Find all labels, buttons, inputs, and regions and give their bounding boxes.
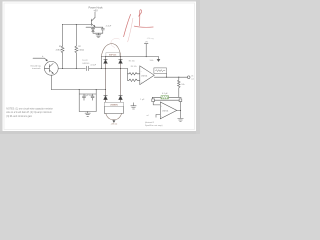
resistor R1 4.8k [56, 25, 64, 69]
svg-text:4.7µF: 4.7µF [106, 26, 112, 28]
red annotation stroke 3 tick [134, 26, 153, 27]
svg-text:0.1 µF: 0.1 µF [162, 93, 168, 95]
label IC part no under R2 [82, 60, 90, 65]
page edge shading [0, 131, 200, 134]
ground under C1/D1 [96, 33, 101, 37]
wire U1 output [154, 76, 187, 78]
svg-text:+5V reg: +5V reg [147, 38, 154, 40]
node output junctions [166, 77, 179, 78]
resistor R5 horizontal [128, 73, 140, 75]
wire feedback drop [166, 73, 168, 77]
dome arc over box [101, 44, 121, 57]
junction dots [62, 24, 147, 90]
ground G3 [85, 112, 90, 117]
svg-text:KBP206: KBP206 [109, 55, 117, 57]
page background [0, 0, 200, 134]
capacitor C4 in rail A [86, 64, 97, 70]
ground G2 [178, 118, 184, 121]
wire into U2 + input [153, 102, 160, 105]
svg-text:4.7µF: 4.7µF [90, 64, 96, 66]
svg-text:100k: 100k [150, 60, 154, 62]
svg-text:10µF 10µF: 10µF 10µF [84, 95, 94, 97]
wire cap line [152, 96, 181, 98]
feedback resistor box [150, 60, 167, 74]
label mic 2 lines [30, 64, 41, 70]
bowl arc under box [106, 113, 122, 119]
caps box verticals [79, 90, 96, 112]
op-amp U2 [160, 102, 177, 119]
svg-text:(3) RL and minimum gain: (3) RL and minimum gain [6, 116, 32, 118]
notes text block [6, 108, 53, 118]
wire rail A [58, 68, 127, 70]
svg-text:+6V: +6V [93, 9, 98, 12]
resistor R2 2.4k [75, 25, 84, 69]
svg-text:R5 10k: R5 10k [129, 61, 135, 63]
svg-text:TL072: TL072 [82, 60, 89, 62]
label R5 [129, 61, 137, 68]
red annotation stroke 2 loop [139, 10, 142, 26]
resistor R6 horizontal [128, 79, 140, 81]
transistor Q1 [91, 18, 95, 27]
wire Q1 emitter rail [86, 26, 103, 28]
wire drop from cap line to U2 input [151, 97, 153, 99]
+9V stub [144, 42, 148, 57]
transistor Q3 (mic element) [44, 61, 58, 75]
svg-text:10k: 10k [181, 84, 184, 86]
red annotation stroke 1 [124, 14, 131, 36]
wire Q1 base rail [63, 24, 91, 26]
input arrow to mic [33, 55, 47, 61]
wire box sides down [104, 107, 123, 114]
svg-text:LM741: LM741 [162, 111, 169, 113]
output terminal [187, 75, 194, 80]
wire into U2 - input [156, 115, 160, 118]
wire rail B [101, 56, 158, 58]
svg-text:4.8kΩ: 4.8kΩ [56, 50, 62, 52]
wire mic emitter down [50, 75, 52, 89]
capacitor C2 10uF [83, 94, 86, 100]
wire dome base drop [100, 57, 102, 69]
label 1uF [140, 99, 145, 101]
red annotation faint tail [128, 18, 133, 42]
capacitor C1 4.7uF [98, 26, 112, 34]
wire caps box top [79, 93, 96, 95]
ground G4 mid [131, 103, 136, 109]
diode D3 [119, 57, 123, 96]
node square left [152, 99, 155, 102]
svg-text:SparkFun mic amp): SparkFun mic amp) [145, 125, 163, 127]
wire U2 feedback top [155, 99, 180, 101]
wire drop to input resistors [127, 69, 129, 81]
faint oval [111, 38, 120, 47]
label Power Hook [88, 6, 103, 13]
smudge note [147, 38, 154, 40]
svg-text:R6 10k: R6 10k [131, 66, 137, 68]
zener D1 [92, 27, 99, 33]
op-amp U1 [140, 66, 155, 85]
diode D4 [104, 95, 108, 102]
diode D5 [119, 95, 123, 102]
note bottom right [145, 122, 163, 127]
wire rail C [51, 89, 105, 91]
capacitor C3 10uF [91, 94, 94, 100]
supply arrow down [157, 57, 160, 62]
svg-text:Vo: Vo [191, 75, 193, 77]
diode D2 [104, 57, 108, 96]
box LM386 [104, 102, 123, 106]
svg-text:2.4kΩ: 2.4kΩ [78, 50, 84, 52]
box label KBP206 [106, 53, 119, 57]
wire U2 output [177, 109, 181, 111]
node square right [179, 99, 182, 102]
wire output to feedback vertical [180, 102, 182, 119]
arrow stem down [111, 120, 118, 126]
svg-text:LM386N: LM386N [110, 105, 118, 107]
capacitor C5 0.1uF (green) [161, 96, 169, 99]
svg-text:(derived f/: (derived f/ [145, 122, 154, 124]
resistor R7 vertical [178, 77, 185, 97]
svg-text:LM741: LM741 [141, 75, 148, 77]
wire from +6V down to Q1 collector [94, 12, 96, 17]
